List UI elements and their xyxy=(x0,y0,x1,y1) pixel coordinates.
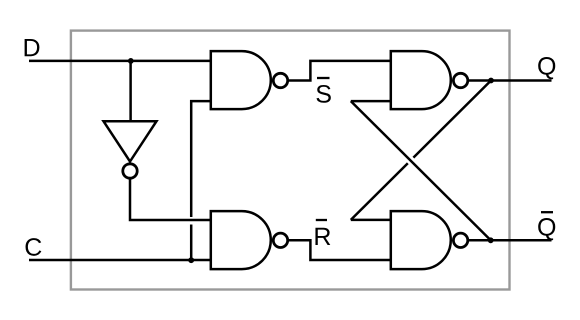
overline of R̄ xyxy=(316,219,327,221)
latch enclosure box xyxy=(71,31,510,290)
node Q junction xyxy=(488,78,494,84)
wire Q̄ output xyxy=(469,239,552,242)
wire cross feedback Q to G4 upper input (broken at crossing) xyxy=(351,81,491,220)
nand gate G4 xyxy=(391,211,451,269)
net label S̄ xyxy=(316,85,330,103)
output label Q xyxy=(538,57,555,79)
G1 output bubble xyxy=(273,73,287,87)
overline of Q̄ xyxy=(541,211,553,213)
inverter U1 output bubble xyxy=(123,164,137,178)
output label Q̄ xyxy=(538,218,555,240)
input label D xyxy=(25,39,40,56)
overline of S̄ xyxy=(317,77,330,79)
G2 output bubble xyxy=(273,233,287,247)
node Q̄ junction xyxy=(488,237,494,243)
G4 output bubble xyxy=(453,233,467,247)
node C junction xyxy=(188,257,194,263)
nand gate G1 xyxy=(211,51,271,109)
wire Q output xyxy=(469,79,552,82)
wire D junction down to inverter input xyxy=(129,61,132,121)
wire S̄ net: G1 output to G3 upper input xyxy=(289,61,391,81)
wire C input to G2 lower input xyxy=(29,259,211,262)
G3 output bubble xyxy=(453,73,467,87)
nand gate G2 xyxy=(211,211,271,269)
input label C xyxy=(26,238,42,256)
net label R̄ xyxy=(315,228,330,245)
wire C junction up to G1 lower input (broken at crossing) xyxy=(191,101,211,260)
wire R̄ net: G2 output to G4 lower input xyxy=(289,240,391,260)
wire D input to G1 upper input xyxy=(29,60,211,63)
wire inverter output to G2 upper input xyxy=(130,179,211,220)
node D junction xyxy=(128,58,134,64)
wire G3 lower input stub xyxy=(351,100,391,103)
nand gate G3 xyxy=(391,51,451,109)
wire G4 upper input stub xyxy=(351,219,391,222)
wire cross feedback Q̄ to G3 lower input xyxy=(351,101,491,240)
inverter U1 xyxy=(104,121,157,161)
